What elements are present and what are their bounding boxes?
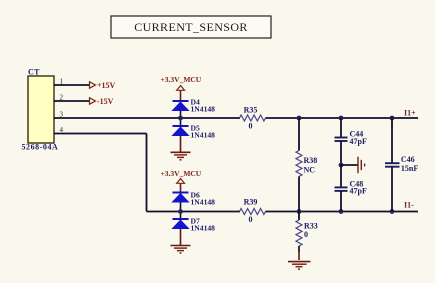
resistor R38 [296, 118, 317, 212]
capacitor C48 [335, 165, 367, 212]
ground under R33 [288, 262, 311, 270]
svg-text:NC: NC [304, 165, 316, 174]
svg-text:CURRENT_SENSOR: CURRENT_SENSOR [134, 20, 248, 34]
power port +3.3V_MCU upper [161, 75, 202, 101]
capacitor C44 [335, 118, 367, 165]
svg-text:R35: R35 [244, 106, 258, 115]
svg-text:+3.3V_MCU: +3.3V_MCU [161, 75, 202, 84]
bar ground (sideways) [358, 157, 365, 173]
diode D4 [172, 97, 215, 113]
wire pin4 bottom to R39 [147, 211, 241, 213]
wire to bar ground [341, 164, 358, 166]
svg-text:2: 2 [60, 94, 64, 102]
wire pin4 horizontal [54, 133, 147, 135]
svg-text:R39: R39 [244, 198, 258, 207]
resistor R39 [240, 198, 266, 224]
junction top rail R38 [297, 116, 302, 121]
diode D6 [172, 191, 215, 207]
junction bottom rail R38 R33 [297, 209, 302, 214]
wire top rail [266, 117, 419, 119]
power port -15V [90, 97, 114, 106]
junction pin3 diode chain [178, 116, 183, 121]
pin 1 [54, 84, 89, 86]
junction bottom rail C48 [339, 209, 344, 214]
resistor R33 [296, 212, 318, 261]
svg-text:I1-: I1- [404, 201, 414, 210]
svg-text:-15V: -15V [97, 97, 114, 106]
svg-text:0: 0 [249, 121, 253, 130]
svg-text:CT: CT [28, 68, 40, 77]
title box [111, 16, 271, 38]
wire diode chain upper [180, 101, 182, 136]
diode D5 [172, 123, 215, 139]
power port +3.3V_MCU lower [161, 169, 202, 193]
junction top rail C46 [390, 116, 395, 121]
svg-text:+3.3V_MCU: +3.3V_MCU [161, 169, 202, 178]
connector CT body [28, 76, 54, 143]
diode D7 [172, 216, 215, 232]
svg-text:R38: R38 [304, 156, 318, 165]
svg-text:0: 0 [249, 215, 253, 224]
junction C44 C48 [339, 163, 344, 168]
svg-text:1N4148: 1N4148 [191, 105, 216, 114]
svg-text:1: 1 [60, 78, 64, 86]
wire bottom rail [266, 211, 419, 213]
wire diode chain lower [180, 193, 182, 230]
svg-text:15nF: 15nF [401, 164, 418, 173]
svg-text:47pF: 47pF [350, 137, 367, 146]
junction pin4 diode chain [178, 209, 183, 214]
svg-text:I1+: I1+ [404, 109, 416, 118]
junction top rail C44 [339, 116, 344, 121]
svg-text:1N4148: 1N4148 [191, 131, 216, 140]
svg-text:0: 0 [304, 230, 308, 239]
svg-text:+15V: +15V [97, 81, 116, 90]
svg-text:C46: C46 [401, 155, 415, 164]
resistor R35 [240, 106, 266, 131]
svg-text:1N4148: 1N4148 [191, 198, 216, 207]
junction bottom rail C46 [390, 209, 395, 214]
pin 2 [54, 100, 89, 102]
svg-text:5268-04A: 5268-04A [22, 143, 59, 152]
ground under D7 [171, 246, 191, 254]
wire pin3 to R35 [54, 117, 240, 119]
ground under D5 [171, 152, 191, 160]
capacitor C46 [385, 118, 418, 212]
wire pin4 vertical [146, 134, 148, 212]
svg-text:47pF: 47pF [350, 187, 367, 196]
svg-text:1N4148: 1N4148 [191, 224, 216, 233]
power port +15V [90, 81, 116, 90]
